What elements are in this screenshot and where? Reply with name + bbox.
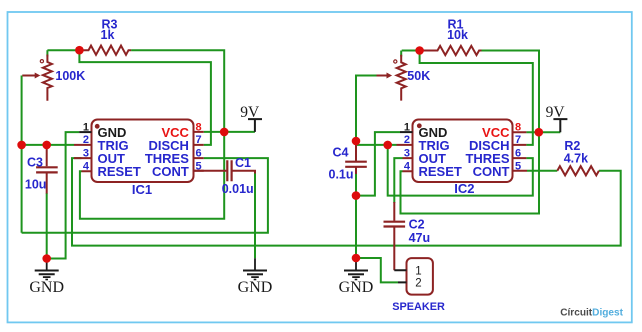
- capacitor C1 plates: [227, 160, 231, 181]
- node R3/pot1: [75, 46, 84, 55]
- svg-text:2: 2: [83, 134, 89, 146]
- svg-text:CONT: CONT: [152, 164, 189, 179]
- potentiometer RV1 wiper arrowhead: [35, 73, 41, 79]
- potentiometer RV2 50K body: [397, 55, 406, 101]
- wire R1 right to VCC rail down to RESET line of IC2: [401, 51, 540, 214]
- svg-text:GND: GND: [339, 279, 374, 296]
- IC1 pin1 stub black: [79, 131, 91, 133]
- ground GND2 (C1): [243, 258, 267, 279]
- svg-text:6: 6: [196, 147, 202, 159]
- svg-text:C4: C4: [333, 146, 349, 160]
- IC1 pin numbers: [83, 121, 202, 172]
- svg-text:100K: 100K: [55, 69, 85, 83]
- IC1 pin stubs left: [74, 145, 92, 171]
- svg-text:SPEAKER: SPEAKER: [392, 301, 445, 313]
- wire pot1 top to R3 junction: [47, 49, 79, 51]
- IC2 pin stubs left: [397, 145, 413, 171]
- node TRIG link IC2: [383, 141, 392, 150]
- node C4 bottom GND jog: [352, 191, 361, 200]
- capacitor C2 leads: [393, 202, 395, 270]
- svg-text:3: 3: [404, 147, 410, 159]
- svg-text:8: 8: [196, 121, 202, 133]
- svg-text:IC2: IC2: [454, 181, 474, 196]
- wire VCC line pin8 IC2 to 9V: [526, 131, 560, 133]
- wire R3 junction down to DISCH of IC1: [79, 50, 211, 145]
- node GND3: [352, 254, 361, 263]
- potentiometer RV1 100K body: [43, 55, 52, 101]
- svg-text:1: 1: [83, 121, 89, 133]
- capacitor C3 leads: [46, 145, 48, 194]
- ground GND3 (IC2): [344, 258, 368, 280]
- capacitor C4 plates: [345, 162, 367, 167]
- wire pot1 wiper down to THRES line: [21, 76, 23, 233]
- svg-text:C3: C3: [27, 156, 43, 170]
- wire TRIG-THRES link IC2: [388, 145, 533, 196]
- svg-text:47u: 47u: [409, 231, 431, 245]
- svg-text:1: 1: [404, 121, 410, 133]
- svg-text:4.7k: 4.7k: [564, 152, 588, 166]
- node R1/pot2: [415, 46, 424, 55]
- node VCC IC2: [535, 128, 544, 137]
- wire pin1 GND IC2 jog: [356, 132, 400, 196]
- svg-text:1k: 1k: [101, 28, 115, 42]
- speaker connector: [407, 258, 433, 295]
- capacitor C2 plates: [384, 222, 406, 227]
- svg-text:3: 3: [83, 147, 89, 159]
- capacitor C3 plates: [36, 167, 58, 172]
- wire C1 right down to GND2: [254, 172, 256, 258]
- svg-text:0.1u: 0.1u: [329, 168, 354, 182]
- node VCC IC1: [220, 128, 229, 137]
- IC1 pin1 marker dot: [95, 124, 100, 129]
- svg-text:7: 7: [515, 134, 521, 146]
- svg-text:6: 6: [515, 147, 521, 159]
- 9V supply symbol 1: [248, 119, 262, 132]
- potentiometer RV1 wiper shaft: [22, 75, 35, 77]
- IC1 555 timer box: [92, 120, 194, 183]
- IC1 pin stubs right: [194, 132, 204, 171]
- svg-text:C1: C1: [235, 156, 251, 170]
- wire TRIG line IC1: [22, 144, 74, 146]
- svg-text:CONT: CONT: [473, 164, 510, 179]
- svg-text:C2: C2: [409, 218, 425, 232]
- svg-text:GND: GND: [238, 279, 273, 296]
- resistor R2 zigzag: [557, 166, 599, 175]
- svg-text:2: 2: [415, 278, 421, 290]
- wire R3 right to VCC rail down to RESET line of IC1: [80, 50, 224, 219]
- wire THRES line IC1: [22, 158, 268, 233]
- capacitor C1 leads: [194, 171, 256, 174]
- node wiper/TRIG IC1: [17, 141, 26, 150]
- potentiometer RV2 pin marker: [394, 60, 397, 63]
- resistor R1 leads and zigzag: [420, 46, 482, 55]
- IC2 pin1 stub black: [400, 131, 413, 133]
- svg-text:8: 8: [515, 121, 521, 133]
- node GND1: [42, 254, 51, 263]
- IC1 pin labels: [98, 125, 190, 179]
- wire pot2 top to R1 junction: [402, 50, 420, 52]
- 9V supply symbol 2: [553, 119, 567, 132]
- svg-text:50K: 50K: [407, 69, 430, 83]
- IC2 pin labels: [419, 125, 511, 179]
- svg-text:RESET: RESET: [98, 164, 141, 179]
- wire OUT IC1 long line to R2 right: [72, 158, 621, 246]
- wire pot2 wiper down to C4 and TRIG of IC2: [356, 76, 377, 161]
- potentiometer RV2 wiper shaft: [377, 75, 388, 77]
- IC2 555 timer box: [413, 120, 513, 183]
- svg-text:1: 1: [415, 265, 421, 277]
- svg-text:5: 5: [515, 160, 521, 172]
- speaker pin stubs: [394, 270, 406, 282]
- wire TRIG line IC2: [356, 144, 397, 146]
- svg-text:CírcuitDigest: CírcuitDigest: [560, 308, 623, 319]
- svg-text:2: 2: [404, 134, 410, 146]
- node C4 top: [352, 137, 361, 146]
- svg-text:9V: 9V: [546, 104, 566, 121]
- svg-text:GND: GND: [29, 279, 64, 296]
- potentiometer RV2 wiper arrowhead: [387, 73, 393, 79]
- wire C4 bottom to GND3: [355, 173, 357, 258]
- svg-text:5: 5: [196, 160, 202, 172]
- IC2 pin numbers: [404, 121, 521, 172]
- svg-text:10k: 10k: [447, 28, 468, 42]
- wire R1 junction down to DISCH of IC2: [420, 51, 533, 145]
- IC2 pin stubs right: [513, 132, 528, 171]
- svg-text:9V: 9V: [240, 104, 260, 121]
- resistor R3 leads and zigzag: [79, 46, 131, 55]
- wire pin1 GND IC1: [47, 132, 79, 258]
- svg-text:4: 4: [83, 160, 90, 172]
- svg-text:0.01u: 0.01u: [222, 182, 254, 196]
- wire C3 bottom to GND1: [46, 193, 48, 259]
- svg-text:4: 4: [404, 160, 411, 172]
- capacitor C4 leads: [355, 142, 357, 175]
- node C3 top: [42, 141, 51, 150]
- svg-text:10u: 10u: [25, 178, 47, 192]
- IC2 pin1 marker dot: [417, 123, 422, 128]
- potentiometer RV1 pin marker: [40, 60, 43, 63]
- svg-text:IC1: IC1: [132, 182, 152, 197]
- ground GND1: [35, 259, 59, 280]
- wire VCC line pin8 IC1 to 9V: [204, 131, 255, 133]
- wire R2 left lead: [527, 170, 557, 172]
- svg-text:7: 7: [196, 134, 202, 146]
- wire OUT IC2 down to C2: [394, 158, 402, 203]
- wire GND3 to speaker pin2: [356, 258, 398, 282]
- svg-text:RESET: RESET: [419, 164, 462, 179]
